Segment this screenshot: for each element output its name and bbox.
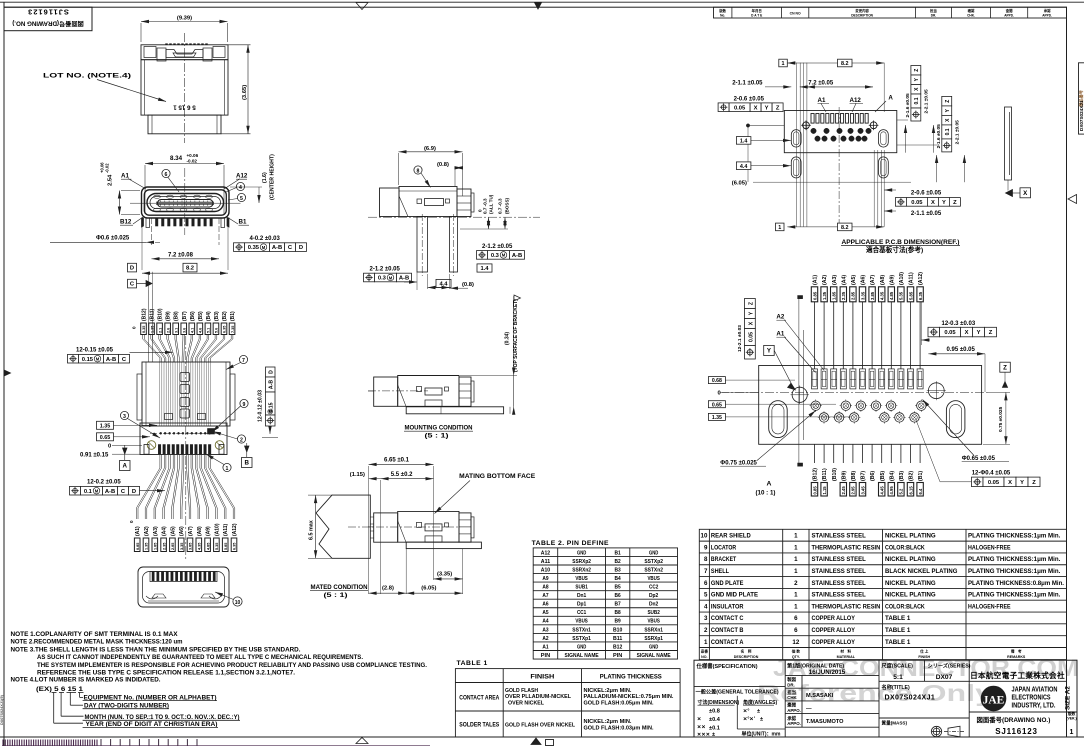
svg-text:3: 3 — [123, 414, 126, 420]
svg-text:6.5 max: 6.5 max — [309, 520, 315, 540]
svg-text:A: A — [888, 95, 893, 102]
svg-text:2-2.1 ±0.05: 2-2.1 ±0.05 — [923, 89, 929, 114]
svg-text:(6.9): (6.9) — [424, 146, 436, 152]
svg-text:GOLD FLASH:0.03μm MIN.: GOLD FLASH:0.03μm MIN. — [584, 726, 654, 732]
svg-text:シリーズ(SERIES): シリーズ(SERIES) — [928, 662, 971, 670]
svg-text:THERMOPLASTIC RESIN: THERMOPLASTIC RESIN — [812, 603, 881, 610]
svg-text:個 数: 個 数 — [791, 649, 801, 654]
svg-text:M: M — [96, 357, 100, 362]
svg-text:1.35: 1.35 — [145, 543, 149, 550]
balloon 3 — [120, 411, 128, 419]
svg-text:NICKEL:2μm MIN.: NICKEL:2μm MIN. — [584, 719, 632, 725]
ruler ticks — [2, 740, 4, 746]
svg-text:B12: B12 — [120, 219, 132, 226]
svg-text:M: M — [389, 275, 393, 280]
balloon 7 — [239, 355, 247, 363]
svg-text:3.35: 3.35 — [860, 291, 865, 300]
svg-text:B4: B4 — [615, 576, 622, 582]
svg-text:TABLE 1: TABLE 1 — [457, 660, 488, 667]
svg-text:Dp1: Dp1 — [577, 602, 586, 608]
svg-text:B6: B6 — [615, 593, 621, 599]
svg-text:Y: Y — [942, 200, 946, 206]
svg-text:PLATING THICKNESS:1μm Min.: PLATING THICKNESS:1μm Min. — [968, 556, 1061, 563]
svg-text:8.2: 8.2 — [841, 225, 849, 231]
svg-text:6.35: 6.35 — [233, 543, 237, 550]
svg-text:1: 1 — [1070, 729, 1074, 736]
svg-text:APPLICABLE P.C.B DIMENSION(REF: APPLICABLE P.C.B DIMENSION(REF.) — [842, 239, 960, 246]
svg-text:CN NO: CN NO — [790, 12, 801, 16]
svg-text:(B2): (B2) — [909, 471, 915, 481]
svg-text:(A5): (A5) — [170, 526, 176, 536]
svg-text:5.35: 5.35 — [215, 543, 219, 550]
svg-text:B10: B10 — [613, 627, 622, 633]
svg-text:2-1.2 ±0.05: 2-1.2 ±0.05 — [482, 244, 513, 250]
svg-text:(VER.): (VER.) — [1066, 716, 1076, 720]
datum B — [245, 446, 250, 452]
svg-text:TABLE 1: TABLE 1 — [885, 615, 911, 622]
svg-text:(A9): (A9) — [889, 275, 895, 285]
svg-text:±0.1: ±0.1 — [709, 725, 720, 731]
svg-text:Z: Z — [1003, 364, 1007, 371]
svg-text:(3.35): (3.35) — [437, 572, 452, 578]
svg-text:4.85: 4.85 — [889, 291, 894, 300]
svg-text:名称(TITLE): 名称(TITLE) — [882, 683, 911, 691]
svg-text:±: ± — [757, 709, 760, 715]
svg-text:仕 上: 仕 上 — [919, 649, 929, 654]
svg-text:SUB2: SUB2 — [647, 610, 659, 616]
svg-text:版数: 版数 — [1068, 711, 1076, 716]
svg-text:(A7): (A7) — [188, 526, 194, 536]
svg-text:A1: A1 — [542, 644, 548, 650]
svg-text:(A6): (A6) — [179, 526, 185, 536]
svg-text:A8: A8 — [542, 585, 548, 591]
svg-text:NOTE 3.THE SHELL LENGTH IS LES: NOTE 3.THE SHELL LENGTH IS LESS THAN THE… — [11, 646, 301, 653]
svg-text:B11: B11 — [613, 636, 622, 642]
svg-text:PLATING THICKNESS:0.8μm Min.: PLATING THICKNESS:0.8μm Min. — [968, 580, 1064, 587]
svg-text:0.68: 0.68 — [712, 378, 722, 384]
svg-text:STAINLESS STEEL: STAINLESS STEEL — [812, 556, 866, 563]
svg-text:PLATING THICKNESS:1μm Min.: PLATING THICKNESS:1μm Min. — [968, 568, 1061, 575]
svg-text:4: 4 — [239, 185, 242, 191]
svg-text:GND: GND — [649, 644, 658, 650]
svg-text:B1: B1 — [615, 550, 621, 556]
svg-text:SSRXn2: SSRXn2 — [572, 567, 591, 573]
svg-text:2-1.6 ±0.05: 2-1.6 ±0.05 — [905, 93, 911, 118]
svg-text:(1.15): (1.15) — [350, 472, 365, 478]
svg-text:0.05: 0.05 — [988, 480, 1000, 486]
bottom view body — [142, 362, 230, 426]
svg-text:NICKEL PLATING: NICKEL PLATING — [885, 533, 936, 540]
svg-text:REFERENCE THE USB TYPE C SPECI: REFERENCE THE USB TYPE C SPECIFICATION R… — [37, 670, 295, 677]
svg-text:GND PLATE: GND PLATE — [711, 580, 744, 587]
svg-text:(A10): (A10) — [214, 523, 220, 536]
svg-text:1: 1 — [226, 466, 229, 472]
svg-text:2: 2 — [704, 627, 708, 634]
svg-text:(A2): (A2) — [144, 526, 150, 536]
svg-text:BLACK NICKEL PLATING: BLACK NICKEL PLATING — [885, 568, 958, 575]
view: applicable pcb dimension — [795, 63, 797, 227]
svg-text:3.1: 3.1 — [174, 328, 178, 333]
svg-text:±0.4: ±0.4 — [709, 717, 721, 723]
svg-text:A6: A6 — [542, 602, 548, 608]
svg-text:Z: Z — [945, 100, 951, 103]
svg-text:0.1: 0.1 — [945, 128, 951, 135]
svg-text:1: 1 — [794, 592, 798, 599]
balloon 5 — [237, 193, 245, 201]
svg-text:1: 1 — [794, 533, 798, 540]
through holes row1 — [811, 401, 820, 410]
svg-text:DX07S024XJ1: DX07S024XJ1 — [1079, 100, 1084, 131]
svg-text:6.35: 6.35 — [918, 291, 923, 300]
svg-text:2: 2 — [240, 437, 243, 443]
svg-text:PIN: PIN — [613, 653, 622, 659]
balloon 9 — [240, 399, 248, 407]
svg-text:1.4: 1.4 — [480, 266, 489, 272]
svg-text:2-1.2 ±0.05: 2-1.2 ±0.05 — [370, 266, 401, 272]
svg-text:A-B: A-B — [272, 245, 282, 251]
svg-text:5:1: 5:1 — [893, 674, 903, 681]
svg-text:(B7): (B7) — [182, 311, 188, 321]
svg-text:TABLE 2. PIN DEFINE: TABLE 2. PIN DEFINE — [532, 540, 609, 547]
svg-text:Φ0.6 ±0.025: Φ0.6 ±0.025 — [96, 236, 130, 242]
upper-left vertical dim (1.35)/(0.65) boxed pair column — [148, 272, 150, 290]
svg-text:0.1: 0.1 — [84, 489, 93, 495]
svg-text:(B5): (B5) — [880, 471, 886, 481]
svg-text:SIZE A2: SIZE A2 — [1065, 686, 1072, 710]
svg-text:12-0.2 ±0.05: 12-0.2 ±0.05 — [87, 480, 121, 486]
svg-text:CONTACT A: CONTACT A — [711, 639, 744, 646]
svg-text:(BOSS): (BOSS) — [505, 197, 510, 214]
JAE logo — [981, 686, 1006, 711]
svg-text:INSULATOR: INSULATOR — [711, 603, 744, 610]
svg-text:(6.05): (6.05) — [421, 586, 436, 592]
svg-text:4.95: 4.95 — [889, 486, 894, 495]
svg-text:STAINLESS STEEL: STAINLESS STEEL — [812, 568, 866, 575]
svg-text:5 6 15 1: 5 6 15 1 — [173, 104, 196, 111]
svg-text:12: 12 — [792, 639, 799, 646]
svg-text:D: D — [299, 245, 303, 251]
svg-text:APPO.: APPO. — [787, 708, 801, 713]
svg-text:CC1: CC1 — [577, 610, 586, 616]
svg-text:8: 8 — [417, 168, 420, 174]
svg-text:(A8): (A8) — [880, 275, 886, 285]
svg-text:12-0.12 ±0.03: 12-0.12 ±0.03 — [258, 390, 264, 422]
svg-text:NOTE 4.LOT NUMBER IS MARKED AS: NOTE 4.LOT NUMBER IS MARKED AS INDIDATED… — [11, 677, 161, 684]
svg-text:(0.8): (0.8) — [437, 162, 449, 168]
svg-text:(A4): (A4) — [841, 275, 847, 285]
svg-text:2-0.6 ±0.05: 2-0.6 ±0.05 — [911, 190, 942, 196]
svg-text:M: M — [95, 489, 99, 494]
svg-text:SHELL: SHELL — [711, 568, 729, 575]
svg-text:OVER NICKEL: OVER NICKEL — [508, 701, 545, 707]
svg-text:1.35: 1.35 — [100, 423, 111, 429]
svg-text:1: 1 — [782, 61, 785, 67]
Y target circle — [792, 387, 807, 402]
svg-text:12-0.15 ±0.05: 12-0.15 ±0.05 — [76, 348, 114, 354]
title block — [694, 660, 1077, 737]
svg-text:A1: A1 — [776, 331, 784, 338]
svg-text:DESCRIPTION: DESCRIPTION — [734, 655, 759, 659]
svg-text:Dn1: Dn1 — [577, 593, 586, 599]
svg-text:PLATING THICKNESS:1μm Min.: PLATING THICKNESS:1μm Min. — [968, 592, 1061, 599]
svg-text:尺度(SCALE): 尺度(SCALE) — [882, 662, 914, 670]
svg-text:QTY.: QTY. — [792, 655, 800, 659]
svg-text:12-2.1 ±0.03: 12-2.1 ±0.03 — [737, 325, 743, 352]
svg-text:B: B — [245, 460, 250, 467]
svg-text:GND: GND — [649, 550, 658, 556]
svg-text:COPPER ALLOY: COPPER ALLOY — [812, 639, 856, 646]
svg-text:(A4): (A4) — [162, 526, 168, 536]
svg-text:2-1.1 ±0.05: 2-1.1 ±0.05 — [732, 81, 763, 87]
svg-text:4.4: 4.4 — [740, 164, 748, 170]
svg-text:✕°✕': ✕°✕' — [743, 717, 755, 723]
svg-text:5.85: 5.85 — [224, 543, 228, 550]
svg-text:(B6): (B6) — [870, 471, 876, 481]
svg-text:7.2 ±0.05: 7.2 ±0.05 — [808, 81, 834, 87]
plated holes — [147, 441, 156, 450]
svg-text:4.85: 4.85 — [206, 543, 210, 550]
svg-text:CHK: CHK — [787, 695, 797, 700]
svg-text:(5 : 1): (5 : 1) — [425, 433, 449, 440]
svg-text:LOT NO. (NOTE.4): LOT NO. (NOTE.4) — [43, 73, 131, 80]
balloon 6 — [162, 169, 170, 177]
svg-text:±: ± — [760, 717, 763, 723]
svg-text:0.05: 0.05 — [944, 330, 956, 336]
svg-text:4.6: 4.6 — [199, 328, 203, 333]
svg-text:HALOGEN-FREE: HALOGEN-FREE — [968, 603, 1011, 610]
svg-text:1: 1 — [794, 603, 798, 610]
svg-text:THERMOPLASTIC RESIN: THERMOPLASTIC RESIN — [812, 544, 881, 551]
svg-text:4.4: 4.4 — [439, 282, 448, 288]
svg-text:STAINLESS STEEL: STAINLESS STEEL — [812, 592, 866, 599]
svg-text:0.05: 0.05 — [911, 200, 923, 206]
svg-text:(A9): (A9) — [206, 526, 212, 536]
svg-text:2.35: 2.35 — [162, 543, 166, 550]
svg-text:7.2 ±0.08: 7.2 ±0.08 — [168, 252, 194, 258]
svg-text:±: ± — [712, 732, 715, 738]
svg-text:SSTXp2: SSTXp2 — [644, 559, 663, 565]
svg-text:M.SASAKI: M.SASAKI — [806, 693, 834, 699]
svg-text:0.15: 0.15 — [82, 357, 94, 363]
svg-text:OVER PLLADIUM-NICKEL: OVER PLLADIUM-NICKEL — [505, 694, 572, 700]
svg-text:4.45: 4.45 — [880, 486, 885, 495]
front shell outline — [142, 187, 230, 218]
svg-text:A5: A5 — [542, 610, 548, 616]
svg-text:CHK.: CHK. — [967, 13, 975, 17]
svg-text:(2.8): (2.8) — [382, 586, 394, 592]
svg-text:材 料: 材 料 — [839, 649, 851, 654]
svg-text:(A1): (A1) — [135, 526, 141, 536]
svg-text:A-B: A-B — [105, 489, 115, 495]
svg-text:(B1): (B1) — [918, 471, 924, 481]
svg-text:0.3: 0.3 — [491, 253, 500, 259]
svg-text:NICKEL PLATING: NICKEL PLATING — [885, 556, 936, 563]
svg-text:A-B: A-B — [399, 276, 409, 282]
svg-text:7: 7 — [704, 568, 708, 575]
svg-text:4.1: 4.1 — [191, 328, 195, 333]
svg-text:7: 7 — [242, 358, 245, 364]
svg-text:HALOGEN-FREE: HALOGEN-FREE — [968, 544, 1011, 551]
smt legs — [142, 218, 144, 227]
svg-text:仕様書(SPECIFICATION): 仕様書(SPECIFICATION) — [696, 662, 758, 670]
svg-text:(B4): (B4) — [206, 311, 212, 321]
svg-text:(A11): (A11) — [909, 272, 915, 285]
svg-text:3: 3 — [704, 615, 708, 622]
svg-text:AS SUCH IT CANNOT INDEPENDENTL: AS SUCH IT CANNOT INDEPENDENTLY BE GUARA… — [37, 654, 363, 661]
svg-text:(1.6): (1.6) — [262, 172, 268, 183]
svg-text:SSRXp2: SSRXp2 — [572, 559, 591, 565]
pcb outline — [784, 111, 897, 153]
svg-text:(B8): (B8) — [174, 311, 180, 321]
svg-text:(0.8): (0.8) — [462, 282, 474, 288]
svg-text:1.35: 1.35 — [822, 291, 827, 300]
svg-text:BRACKET: BRACKET — [711, 556, 736, 563]
svg-text:INDUSTRY, LTD.: INDUSTRY, LTD. — [1012, 703, 1056, 710]
svg-text:—: — — [806, 706, 812, 712]
svg-text:COLOR:BLACK: COLOR:BLACK — [885, 544, 925, 551]
svg-text:SSTXn2: SSTXn2 — [644, 567, 663, 573]
svg-text:12-Φ0.4 ±0.05: 12-Φ0.4 ±0.05 — [972, 471, 1011, 477]
right edge label box — [1079, 63, 1084, 134]
svg-text:STAINLESS STEEL: STAINLESS STEEL — [812, 533, 866, 540]
svg-text:SSTXp1: SSTXp1 — [572, 636, 591, 642]
svg-text:1: 1 — [704, 639, 708, 646]
svg-text:GND: GND — [577, 644, 586, 650]
svg-text:一般公差(GENERAL TOLERANCE): 一般公差(GENERAL TOLERANCE) — [696, 688, 779, 696]
svg-text:SJ116123: SJ116123 — [995, 727, 1037, 736]
svg-text:A: A — [767, 480, 772, 487]
svg-text:適合基板寸法(参考): 適合基板寸法(参考) — [866, 245, 923, 254]
svg-text:6: 6 — [704, 580, 708, 587]
svg-text:A2: A2 — [776, 314, 784, 321]
svg-text:Φ0.75 ±0.025: Φ0.75 ±0.025 — [720, 461, 757, 467]
svg-text:Z: Z — [914, 69, 920, 72]
third angle projection symbol — [933, 728, 940, 735]
view: connector top view — [141, 21, 228, 23]
svg-text:SSRXn1: SSRXn1 — [644, 627, 663, 633]
svg-text:STAINLESS STEEL: STAINLESS STEEL — [812, 580, 866, 587]
svg-text:(A6): (A6) — [861, 275, 867, 285]
svg-text:3.85: 3.85 — [189, 543, 193, 550]
revision table header strip — [714, 7, 1067, 18]
svg-text:JAPAN AVIATION: JAPAN AVIATION — [1012, 687, 1058, 694]
svg-text:VBUS: VBUS — [647, 619, 660, 625]
svg-text:0.1: 0.1 — [914, 97, 920, 104]
svg-text:A7: A7 — [542, 593, 548, 599]
svg-text:B1: B1 — [239, 219, 247, 226]
svg-text:10: 10 — [235, 600, 241, 606]
svg-text:0.65: 0.65 — [712, 402, 722, 408]
svg-text:CONTACT C: CONTACT C — [711, 615, 744, 622]
border frame — [0, 1, 1084, 3]
svg-text:(A5): (A5) — [851, 275, 857, 285]
svg-text:5.85: 5.85 — [908, 291, 913, 300]
svg-text:(B10): (B10) — [832, 468, 838, 481]
svg-text:D: D — [130, 266, 134, 272]
svg-text:品番: 品番 — [701, 649, 709, 654]
datum A — [123, 448, 128, 454]
svg-text:(B9): (B9) — [166, 311, 172, 321]
svg-text:(CENTER HEIGHT): (CENTER HEIGHT) — [270, 154, 276, 200]
svg-text:(3.65): (3.65) — [242, 85, 248, 100]
svg-text:(EX) 5 6 15 1: (EX) 5 6 15 1 — [36, 686, 84, 693]
svg-text:(A7): (A7) — [870, 275, 876, 285]
mated plug outline — [316, 495, 370, 558]
svg-text:FINISH: FINISH — [530, 674, 554, 681]
svg-text:D: D — [132, 489, 136, 495]
svg-text:0.3: 0.3 — [378, 276, 387, 282]
svg-text:図面番号(DRAWING NO.): 図面番号(DRAWING NO.) — [977, 715, 1051, 724]
svg-text:PLATING THICKNESS:1μm Min.: PLATING THICKNESS:1μm Min. — [968, 533, 1061, 540]
svg-text:PALLADIUM-NICKEL:0.75μm MIN.: PALLADIUM-NICKEL:0.75μm MIN. — [584, 694, 674, 700]
svg-text:A12: A12 — [236, 172, 248, 179]
svg-text:X: X — [931, 200, 935, 206]
svg-text:No.: No. — [720, 13, 725, 17]
svg-text:LOCATOR: LOCATOR — [711, 544, 737, 551]
svg-text:1: 1 — [794, 568, 798, 575]
svg-text:NOTE 2.RECOMMENDED METAL MASK: NOTE 2.RECOMMENDED METAL MASK THICKNESS:… — [11, 639, 183, 646]
svg-text:6: 6 — [794, 615, 798, 622]
svg-text:Z: Z — [1032, 480, 1036, 486]
svg-text:VBUS: VBUS — [647, 576, 660, 582]
svg-text:(B6): (B6) — [190, 311, 196, 321]
svg-text:0.35: 0.35 — [142, 326, 146, 333]
svg-text:MATERIAL: MATERIAL — [837, 655, 856, 659]
balloon 4 — [236, 182, 244, 190]
svg-text:0.7 -0.3: 0.7 -0.3 — [483, 198, 488, 214]
centering marks — [356, 3, 368, 10]
svg-text:(A8): (A8) — [197, 526, 203, 536]
svg-text:(A3): (A3) — [832, 275, 838, 285]
svg-text:B9: B9 — [615, 619, 621, 625]
svg-text:B7: B7 — [615, 602, 621, 608]
svg-text:Dn2: Dn2 — [649, 602, 658, 608]
svg-text:(B7): (B7) — [861, 471, 867, 481]
svg-text:A-B: A-B — [512, 253, 522, 259]
svg-text:(A12): (A12) — [918, 272, 924, 285]
svg-text:2.6: 2.6 — [166, 328, 170, 333]
svg-text:✕✕: ✕✕ — [697, 725, 706, 731]
svg-text:(A3): (A3) — [153, 526, 159, 536]
svg-text:(ALL TU): (ALL TU) — [489, 194, 494, 214]
svg-text:9: 9 — [243, 402, 246, 408]
svg-text:1.4: 1.4 — [740, 139, 748, 145]
svg-text:VBUS: VBUS — [575, 576, 588, 582]
svg-text:B2: B2 — [615, 559, 621, 565]
svg-text:A2: A2 — [542, 636, 548, 642]
svg-text:APPO.: APPO. — [787, 721, 801, 726]
svg-text:2-2.1 ±0.05: 2-2.1 ±0.05 — [954, 120, 960, 145]
svg-text:NICKEL PLATING: NICKEL PLATING — [885, 592, 936, 599]
svg-text:6: 6 — [165, 172, 168, 178]
svg-text:Y: Y — [765, 105, 769, 111]
svg-text:2.85: 2.85 — [171, 543, 175, 550]
svg-text:4.35: 4.35 — [198, 543, 202, 550]
svg-text:名 称: 名 称 — [741, 649, 752, 654]
svg-text:A-B: A-B — [106, 357, 116, 363]
svg-text:(B2): (B2) — [222, 311, 228, 321]
svg-text:CC2: CC2 — [649, 585, 658, 591]
svg-text:DX07: DX07 — [936, 674, 953, 681]
Z target circle — [928, 383, 944, 399]
svg-text:B5: B5 — [615, 585, 621, 591]
svg-text:Y: Y — [1020, 480, 1024, 486]
svg-text:2.54: 2.54 — [108, 174, 114, 186]
svg-text:2.35: 2.35 — [841, 291, 846, 300]
svg-text:ELECTRONICS: ELECTRONICS — [1012, 695, 1051, 702]
svg-text:1.35: 1.35 — [712, 415, 722, 421]
svg-text:APPD.: APPD. — [1004, 13, 1014, 17]
